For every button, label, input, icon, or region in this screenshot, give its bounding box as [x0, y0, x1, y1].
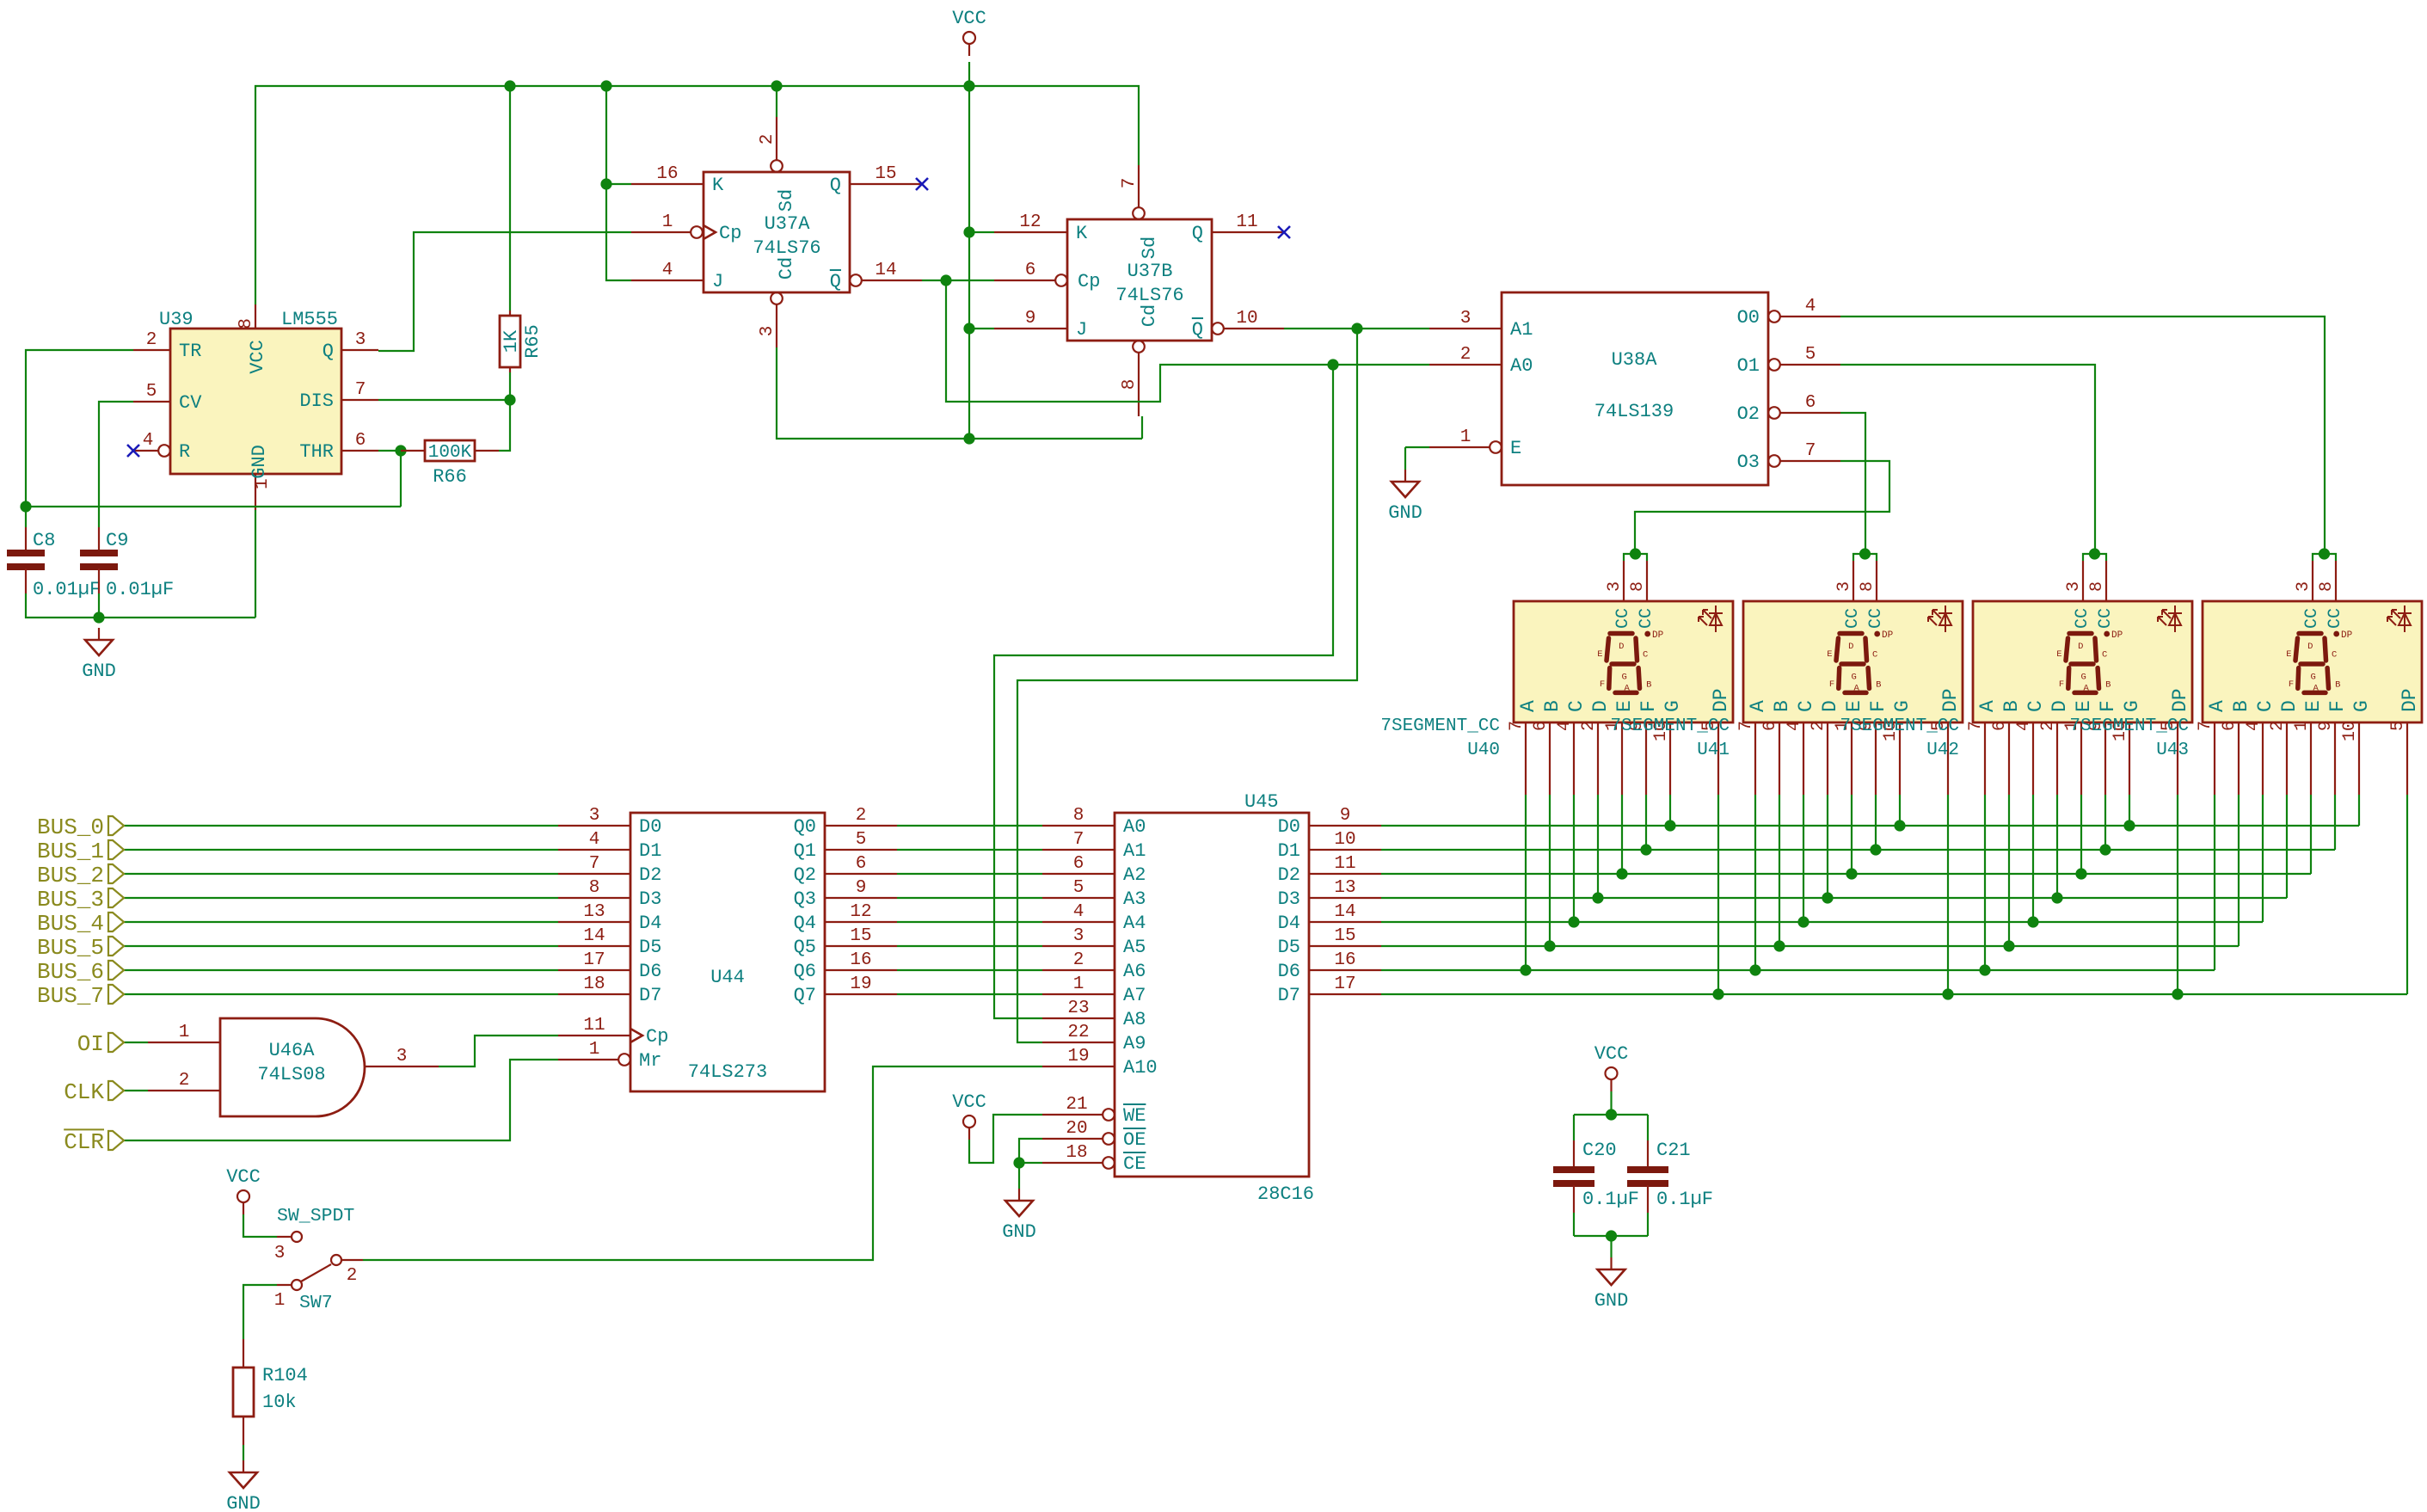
net label CLR [108, 1131, 124, 1150]
wire U45 D3 data row [1381, 897, 2287, 899]
U44 pin 16 Q6 [825, 969, 897, 971]
svg-text:D1: D1 [639, 840, 661, 862]
wire VCC top rail [255, 86, 1139, 304]
svg-text:DP: DP [1939, 688, 1962, 712]
U39 pin 4 R no-connect [158, 445, 170, 457]
U43 seven segment digit glyph [2295, 634, 2329, 693]
U37A pin 4 J [631, 280, 704, 281]
wire U44 Q7 to U45 A7 [897, 993, 1042, 995]
U39 pin 7 DIS [342, 399, 378, 401]
svg-text:18: 18 [583, 974, 605, 994]
svg-text:28C16: 28C16 [1257, 1183, 1314, 1205]
svg-text:J: J [712, 271, 723, 292]
wire U44 Q6 to U45 A6 [897, 969, 1042, 971]
svg-text:C21: C21 [1656, 1140, 1691, 1161]
svg-text:Cd: Cd [776, 257, 797, 280]
svg-text:16: 16 [1334, 950, 1355, 970]
U39 pin 5 CV [133, 401, 170, 403]
svg-text:1: 1 [253, 478, 273, 489]
U37A pin 3 Cd bottom [771, 292, 783, 304]
svg-text:74LS76: 74LS76 [1115, 285, 1183, 306]
svg-text:2: 2 [758, 134, 777, 145]
svg-text:CE: CE [1123, 1153, 1146, 1175]
svg-text:E: E [1510, 438, 1521, 459]
svg-text:K: K [1076, 223, 1088, 244]
svg-text:74LS139: 74LS139 [1594, 401, 1674, 422]
svg-text:A0: A0 [1510, 355, 1533, 377]
svg-text:13: 13 [583, 902, 605, 922]
U38A pin 1 E enable [1429, 446, 1490, 448]
U37A pin 16 K [631, 183, 704, 185]
svg-text:G: G [1662, 700, 1684, 712]
svg-text:A: A [2313, 684, 2319, 694]
svg-text:GND: GND [1388, 502, 1422, 524]
svg-text:A6: A6 [1123, 961, 1146, 982]
svg-text:CC: CC [2326, 608, 2345, 629]
U45 pin 23 A8 [1042, 1017, 1115, 1019]
svg-text:11: 11 [1236, 212, 1257, 232]
U41 bottom segment pins [1754, 722, 1756, 795]
svg-text:8: 8 [1858, 581, 1877, 592]
svg-text:DP: DP [1710, 688, 1732, 712]
svg-text:K: K [712, 175, 724, 196]
wire R65 bottom to DIS node [509, 372, 511, 400]
svg-text:VCC: VCC [952, 1091, 986, 1113]
svg-text:BUS_6: BUS_6 [37, 959, 104, 985]
U44 pin 3 D0 [558, 825, 630, 827]
junction DIS node [504, 394, 515, 405]
svg-text:D2: D2 [639, 864, 661, 886]
svg-text:4: 4 [2244, 721, 2264, 731]
wire U45 D5 data row [1381, 945, 2239, 947]
svg-text:CC: CC [2096, 608, 2116, 629]
svg-text:B: B [1541, 700, 1564, 712]
junction rail at U37A Sd [771, 80, 782, 91]
junction U37A K feed [600, 178, 611, 189]
svg-text:C: C [1643, 650, 1648, 661]
svg-text:2: 2 [347, 1266, 358, 1286]
svg-text:Q2: Q2 [794, 864, 816, 886]
svg-text:A8: A8 [1123, 1009, 1146, 1030]
svg-text:8: 8 [589, 878, 600, 898]
junction U40 segment taps [1520, 964, 1531, 975]
svg-text:CC: CC [1843, 608, 1863, 629]
wire A0 route down and right to U38A [946, 280, 1429, 402]
svg-text:12: 12 [850, 902, 871, 922]
svg-text:4: 4 [1785, 721, 1804, 731]
ground GND at C20 [1610, 1257, 1612, 1269]
U44 pin 4 D1 [558, 849, 630, 851]
svg-text:10: 10 [2340, 721, 2360, 741]
svg-text:VCC: VCC [1594, 1043, 1629, 1065]
svg-text:0.1µF: 0.1µF [1582, 1189, 1639, 1210]
wire U37A Qbar to U37B Cp and A0 route [922, 280, 994, 281]
U37B pin 11 Q no-connect [1212, 231, 1284, 233]
wire U42 CC staple [2083, 554, 2106, 561]
U44 pin 17 D6 [558, 969, 630, 971]
junction A0 to A9 takeoff [1327, 359, 1338, 370]
svg-text:CV: CV [179, 392, 202, 414]
wire GND rail under caps [26, 593, 255, 618]
wire U44 Q3 to U45 A3 [897, 897, 1042, 899]
svg-text:Sd: Sd [1139, 237, 1160, 259]
svg-text:U41: U41 [1697, 741, 1730, 760]
svg-text:19: 19 [1067, 1047, 1089, 1066]
svg-text:E: E [2056, 649, 2061, 660]
svg-text:C: C [1565, 700, 1588, 712]
U44 pin 7 D2 [558, 873, 630, 875]
svg-text:U38A: U38A [1612, 349, 1658, 371]
svg-text:7: 7 [1073, 830, 1084, 850]
net label BUS_0 [108, 816, 124, 835]
svg-text:2: 2 [2268, 721, 2288, 731]
junction C20 bracket top [1606, 1109, 1617, 1120]
svg-text:B: B [2335, 680, 2340, 691]
U45 pin 13 D3 [1309, 897, 1381, 899]
U45 pin 5 A3 [1042, 897, 1115, 899]
wire U45 D2 data row [1381, 873, 2311, 875]
svg-text:U40: U40 [1467, 741, 1500, 760]
resistor R104 10k [243, 1339, 244, 1368]
svg-text:D: D [1819, 700, 1841, 712]
wire BUS_1 to U44 D1 [124, 849, 558, 851]
svg-text:E: E [2286, 649, 2291, 660]
svg-text:LM555: LM555 [281, 309, 338, 330]
U45 pin 6 A2 [1042, 873, 1115, 875]
wire DIS to R65/R66 node [378, 399, 510, 401]
svg-text:U42: U42 [1926, 741, 1959, 760]
ground GND at U38A E [1404, 470, 1406, 482]
svg-text:20: 20 [1066, 1119, 1087, 1139]
U37A pin 14 Qbar output [850, 274, 862, 286]
svg-text:GND: GND [1002, 1221, 1036, 1243]
wire branch to U37A K [606, 183, 631, 185]
U45 pin 14 D4 [1309, 921, 1381, 923]
wire OE to GND net [1019, 1139, 1042, 1163]
svg-text:8: 8 [1120, 379, 1140, 390]
svg-text:F: F [1637, 700, 1660, 712]
wire U41 CC staple [1853, 554, 1877, 561]
svg-text:15: 15 [875, 164, 896, 184]
svg-text:DP: DP [2111, 630, 2123, 641]
U45 pin 15 D5 [1309, 945, 1381, 947]
junction U37B K feed [963, 226, 974, 237]
U42 bottom segment pins [1984, 722, 1986, 795]
svg-text:E: E [1843, 700, 1865, 712]
svg-text:3: 3 [2294, 581, 2313, 592]
svg-text:3: 3 [396, 1047, 408, 1066]
svg-text:5: 5 [856, 830, 867, 850]
svg-text:22: 22 [1067, 1023, 1089, 1042]
svg-text:3: 3 [1605, 581, 1625, 592]
svg-text:SW_SPDT: SW_SPDT [277, 1206, 354, 1226]
svg-text:Cp: Cp [719, 223, 741, 244]
svg-text:Mr: Mr [639, 1050, 661, 1072]
junction clear net at 1127 [963, 433, 974, 444]
svg-text:F: F [2326, 700, 2349, 712]
U44 pin 1 Mr reset [558, 1059, 618, 1060]
wire VCC drop to U37B K and J and Cd net [968, 86, 970, 439]
wire TR net to C8 and THR [26, 350, 133, 527]
wire U42 segment drops to data rows [1984, 795, 1986, 970]
svg-text:F: F [1600, 679, 1605, 690]
svg-text:CLR: CLR [64, 1129, 104, 1155]
wire BUS_2 to U44 D2 [124, 873, 558, 875]
7-segment display U41 body [1743, 601, 1963, 722]
svg-text:7: 7 [1805, 441, 1816, 461]
svg-text:9: 9 [856, 878, 867, 898]
wire C21 top lead [1647, 1115, 1649, 1140]
wire TR-THR link [26, 506, 401, 507]
junction U42 CC feed [2089, 548, 2100, 559]
svg-text:Q6: Q6 [794, 961, 816, 982]
svg-text:F: F [2289, 679, 2294, 690]
U39 pin 2 TR [133, 349, 170, 351]
U41 top pins 3 and 8 CC [1853, 561, 1854, 601]
svg-text:Q7: Q7 [794, 985, 816, 1006]
U44 pin 12 Q4 [825, 921, 897, 923]
junction U37B J feed [963, 323, 974, 334]
U45 pin 21 WE [1042, 1114, 1103, 1116]
svg-text:A: A [1747, 700, 1769, 712]
wire VCC to SW7 pin3 [243, 1214, 277, 1237]
svg-text:2: 2 [179, 1071, 190, 1091]
svg-text:CLK: CLK [64, 1079, 104, 1105]
svg-text:A: A [1624, 684, 1630, 694]
U40 bottom segment pins [1525, 722, 1527, 795]
wire U44 Q0 to U45 A0 [897, 825, 1042, 827]
wire BUS_4 to U44 D4 [124, 921, 558, 923]
U42 seven segment digit glyph [2066, 634, 2099, 693]
svg-text:14: 14 [875, 261, 896, 280]
wire U44 Q5 to U45 A5 [897, 945, 1042, 947]
svg-text:5: 5 [1805, 345, 1816, 365]
svg-text:D6: D6 [1278, 961, 1300, 982]
svg-text:4: 4 [662, 261, 673, 280]
svg-text:Q: Q [323, 341, 334, 362]
svg-text:D3: D3 [639, 888, 661, 910]
power VCC at U45 WE [963, 1116, 975, 1128]
svg-text:D: D [1589, 700, 1612, 712]
svg-text:A1: A1 [1123, 840, 1146, 862]
U38A pin 3 A1 [1429, 328, 1502, 329]
svg-text:A0: A0 [1123, 816, 1146, 838]
svg-text:7: 7 [589, 854, 600, 874]
svg-text:D7: D7 [1278, 985, 1300, 1006]
U45 pin 17 D7 [1309, 993, 1381, 995]
U37A pin 2 Sd top [776, 117, 777, 160]
svg-text:74LS76: 74LS76 [753, 237, 820, 259]
svg-text:Q1: Q1 [794, 840, 816, 862]
wire Q output to U37A Cp [378, 232, 631, 351]
wire LM555 GND pin down [255, 510, 256, 618]
svg-text:4: 4 [2014, 721, 2034, 731]
wire GND drop U45 [1018, 1163, 1020, 1189]
wire branch to U37B J [969, 328, 994, 329]
svg-text:GND: GND [226, 1493, 261, 1512]
wire VCC drop to U37A K and J [606, 86, 631, 280]
svg-text:CC: CC [2302, 608, 2322, 629]
capacitor C8 [25, 527, 27, 551]
svg-text:TR: TR [179, 341, 201, 362]
wire U37B Cd stub to clear net [1141, 416, 1143, 439]
svg-text:17: 17 [583, 950, 605, 970]
U39 pin 6 THR [342, 450, 378, 452]
svg-text:G: G [1622, 673, 1627, 683]
svg-text:R: R [179, 441, 190, 463]
svg-text:3: 3 [1073, 926, 1084, 946]
svg-text:Q0: Q0 [794, 816, 816, 838]
svg-text:Q: Q [1192, 319, 1203, 341]
svg-text:14: 14 [583, 926, 605, 946]
svg-text:CC: CC [1637, 608, 1656, 629]
svg-text:E: E [1597, 649, 1602, 660]
svg-text:C: C [1872, 650, 1877, 661]
svg-text:BUS_7: BUS_7 [37, 983, 104, 1009]
svg-text:C: C [2025, 700, 2047, 712]
svg-text:Sd: Sd [776, 189, 797, 212]
junction U41 segment taps [1749, 964, 1760, 975]
svg-text:C8: C8 [33, 530, 55, 551]
U42 top pins 3 and 8 CC [2082, 561, 2084, 601]
svg-text:DP: DP [1652, 630, 1664, 641]
wire U37A Sd from rail [776, 86, 777, 117]
junction C20 bracket bottom [1606, 1230, 1617, 1241]
svg-text:18: 18 [1066, 1143, 1087, 1163]
junction rail at VCC drop [963, 80, 974, 91]
svg-text:BUS_2: BUS_2 [37, 863, 104, 888]
svg-text:6: 6 [1531, 721, 1551, 731]
U37B pin 12 K [994, 231, 1067, 233]
svg-text:D5: D5 [639, 937, 661, 958]
svg-text:A10: A10 [1123, 1057, 1158, 1079]
wire U46A output to U44 Cp [439, 1036, 558, 1066]
svg-text:17: 17 [1334, 974, 1355, 994]
svg-text:6: 6 [1805, 393, 1816, 413]
svg-text:23: 23 [1067, 999, 1089, 1018]
svg-text:11: 11 [583, 1016, 605, 1036]
wire BUS_0 to U44 D0 [124, 825, 558, 827]
U42 LED arrow icon [2158, 605, 2182, 632]
svg-text:U43: U43 [2156, 741, 2189, 760]
U46A pin 2 [148, 1090, 220, 1091]
ground GND under caps [98, 628, 100, 640]
wire GND drop C20 [1610, 1236, 1612, 1257]
U44 pin 6 Q2 [825, 873, 897, 875]
svg-text:2: 2 [146, 330, 157, 350]
svg-text:16: 16 [850, 950, 871, 970]
junction GND rail at C9 [93, 612, 104, 623]
wire E to GND [1405, 446, 1429, 448]
U39 pin 3 Q [342, 349, 378, 351]
wire OI to U46A pin1 [124, 1042, 148, 1043]
svg-text:R66: R66 [433, 466, 467, 488]
svg-text:DP: DP [2399, 688, 2421, 712]
U44 pin 8 D3 [558, 897, 630, 899]
svg-text:4: 4 [1805, 297, 1816, 317]
svg-text:Q: Q [830, 271, 841, 292]
svg-text:A3: A3 [1123, 888, 1146, 910]
svg-text:2: 2 [1073, 950, 1084, 970]
svg-text:G: G [2081, 673, 2086, 683]
U45 pin 7 A1 [1042, 849, 1115, 851]
svg-text:B: B [1876, 680, 1881, 691]
wire U45 D0 data row [1381, 825, 2359, 827]
U44 pin 13 D4 [558, 921, 630, 923]
IC U45 28C16 body [1115, 813, 1309, 1177]
U39 pin 8 VCC top [255, 304, 256, 329]
svg-text:7: 7 [1736, 721, 1756, 731]
svg-text:Cp: Cp [646, 1026, 668, 1048]
capacitor C21 [1647, 1140, 1649, 1168]
svg-text:A4: A4 [1123, 913, 1146, 934]
U37B pin 6 Cp [994, 280, 1055, 281]
net label BUS_3 [108, 888, 124, 907]
U44 pin 9 Q3 [825, 897, 897, 899]
svg-text:3: 3 [355, 330, 366, 350]
svg-text:7: 7 [355, 380, 366, 400]
svg-text:0.1µF: 0.1µF [1656, 1189, 1713, 1210]
svg-text:Q5: Q5 [794, 937, 816, 958]
svg-text:GND: GND [82, 661, 116, 682]
svg-text:6: 6 [1760, 721, 1780, 731]
svg-text:G: G [2350, 700, 2373, 712]
svg-text:2: 2 [1460, 345, 1472, 365]
U38A pin 5 O1 [1768, 359, 1780, 371]
svg-text:F: F [2059, 679, 2064, 690]
U45 pin 19 A10 [1042, 1066, 1115, 1067]
IC U44 74LS273 body [630, 813, 825, 1091]
svg-text:U39: U39 [159, 309, 194, 330]
wire U45 D6 data row [1381, 969, 2215, 971]
svg-text:C20: C20 [1582, 1140, 1617, 1161]
wire U45 D7 data row [1381, 993, 2407, 995]
U38A pin 4 O0 [1768, 310, 1780, 323]
U45 pin 16 D6 [1309, 969, 1381, 971]
svg-text:9: 9 [1025, 309, 1036, 329]
wire O0 to U43 CC [1840, 317, 2325, 554]
U37A pin 1 Cp clock [631, 231, 691, 233]
ground GND at R104 [243, 1460, 244, 1472]
svg-text:A1: A1 [1510, 319, 1533, 341]
svg-text:U37B: U37B [1127, 261, 1173, 282]
svg-text:THR: THR [299, 441, 334, 463]
svg-text:D4: D4 [1278, 913, 1300, 934]
svg-text:D5: D5 [1278, 937, 1300, 958]
net label BUS_2 [108, 864, 124, 883]
U43 top pins 3 and 8 CC [2312, 561, 2313, 601]
resistor R65 1K [509, 310, 511, 316]
svg-text:7SEGMENT_CC: 7SEGMENT_CC [1380, 716, 1500, 736]
wire U44 Q1 to U45 A1 [897, 849, 1042, 851]
svg-text:16: 16 [656, 164, 678, 184]
junction U42 segment taps [1979, 964, 1990, 975]
IC U38A 74LS139 body [1502, 292, 1768, 485]
svg-text:C: C [2254, 700, 2276, 712]
svg-text:15: 15 [850, 926, 871, 946]
svg-text:D: D [1848, 642, 1853, 652]
svg-text:8: 8 [237, 318, 256, 329]
capacitor C20 [1573, 1140, 1575, 1168]
svg-text:D1: D1 [1278, 840, 1300, 862]
U38A pin 2 A0 [1429, 364, 1502, 366]
svg-text:U37A: U37A [765, 213, 811, 235]
svg-text:VCC: VCC [226, 1166, 261, 1188]
svg-text:6: 6 [355, 431, 366, 451]
U44 pin 14 D5 [558, 945, 630, 947]
svg-text:A: A [1853, 684, 1859, 694]
U37B pin 7 Sd top [1138, 165, 1140, 207]
